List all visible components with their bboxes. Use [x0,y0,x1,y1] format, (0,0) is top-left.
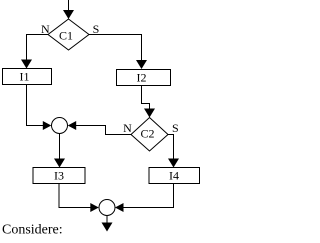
wire I2 to C2 [142,86,156,118]
wire C2 S-branch to I4 [168,135,179,168]
wire I4 to junction J2 [115,184,174,213]
process I3 [33,168,85,184]
process I2 [117,70,171,86]
svg-text:I1: I1 [20,70,30,84]
svg-text:I4: I4 [169,169,179,183]
junction J1 [52,118,68,134]
svg-text:Considere:: Considere: [2,223,63,238]
svg-text:N: N [123,121,132,135]
wire junction J1 to I3 [54,134,65,168]
junction J2 [99,200,115,216]
svg-text:C2: C2 [140,127,154,141]
svg-text:I3: I3 [54,169,64,183]
svg-text:S: S [93,22,100,36]
start arrow into C1 [63,0,74,19]
wire C1 S-branch to I2 [89,35,147,70]
wire I1 to junction J1 [27,85,52,131]
exit arrow from J2 [102,216,113,232]
svg-text:I2: I2 [137,71,147,85]
svg-text:N: N [41,22,50,36]
wire I3 to junction J2 [59,184,99,213]
process I4 [149,168,200,184]
decision C2 [131,118,168,152]
svg-text:S: S [172,121,179,135]
wire C2 N-branch to junction J1 [68,121,131,135]
svg-text:C1: C1 [59,29,73,43]
decision C1 [48,19,89,50]
process I1 [3,69,52,85]
wire C1 N-branch to I1 [21,35,48,69]
